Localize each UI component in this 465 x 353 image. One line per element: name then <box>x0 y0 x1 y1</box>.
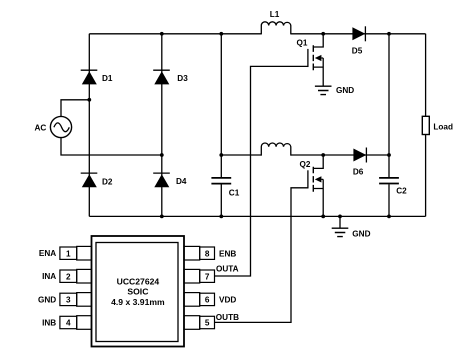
wire C1 column <box>220 34 222 217</box>
svg-text:7: 7 <box>205 272 210 281</box>
ground GND1 (Q1 source) <box>315 86 332 94</box>
svg-text:D2: D2 <box>102 177 113 186</box>
pin 6 box <box>200 293 215 305</box>
pin 5 box <box>200 316 215 328</box>
svg-text:ENB: ENB <box>219 249 236 258</box>
svg-text:VDD: VDD <box>219 296 236 305</box>
pin 2 box <box>60 270 77 282</box>
wire top bus left (bridge output to L1) <box>89 33 261 35</box>
svg-text:GND: GND <box>352 230 370 239</box>
pin 6 leg <box>184 293 200 307</box>
wire OUTB net (pin 5 to Q2 gate) <box>215 188 308 323</box>
pin 8 box <box>200 247 215 259</box>
capacitor C1 <box>211 178 231 184</box>
svg-text:1: 1 <box>66 249 71 258</box>
wire C2 column <box>388 34 390 217</box>
junction: bottom bus at C1 <box>219 215 223 219</box>
ground GND2 (bottom bus) <box>332 216 349 236</box>
pin 4 leg <box>77 316 92 330</box>
wire load right rail <box>425 34 427 217</box>
pin 1 leg <box>77 246 92 260</box>
svg-text:GND: GND <box>38 295 56 304</box>
wire bottom bus <box>89 215 425 217</box>
svg-text:4: 4 <box>66 319 71 328</box>
svg-text:D3: D3 <box>177 74 188 83</box>
op-amp U1 body (UCC27624 outer) <box>92 236 185 347</box>
junction: AC bottom tap <box>160 153 164 157</box>
wire OUTA net (pin 7 to Q1 gate) <box>215 66 308 276</box>
resistor Load <box>422 116 429 134</box>
diode D5 <box>352 26 365 41</box>
inductor L1 <box>261 22 290 35</box>
svg-text:Load: Load <box>433 123 453 132</box>
diode D3 <box>153 70 170 84</box>
svg-text:D5: D5 <box>352 47 363 56</box>
AC source <box>50 116 71 137</box>
diode D4 <box>153 173 170 187</box>
junction: top bus at D3 <box>160 32 164 36</box>
svg-text:8: 8 <box>205 249 210 258</box>
svg-text:C1: C1 <box>229 189 240 198</box>
diode D2 <box>81 173 98 187</box>
pin 2 leg <box>77 269 92 283</box>
junction: D6/C2 <box>387 153 391 157</box>
svg-text:5: 5 <box>205 319 210 328</box>
svg-text:Q2: Q2 <box>300 160 311 169</box>
svg-text:4.9 x 3.91mm: 4.9 x 3.91mm <box>111 297 165 307</box>
wire bridge right column <box>161 34 163 217</box>
svg-text:D6: D6 <box>353 168 364 177</box>
pin 5 leg <box>184 316 200 330</box>
junction: Q2 drain <box>321 153 325 157</box>
junction: top bus at D5/C2 <box>387 32 391 36</box>
svg-text:GND: GND <box>336 86 354 95</box>
svg-text:ENA: ENA <box>39 249 56 258</box>
pin 1 box <box>60 247 77 259</box>
wire stage-2 feed (C1 tap to L2 to Q2 drain to D6) <box>221 154 389 156</box>
diode D6 <box>353 148 366 163</box>
pin 4 box <box>60 316 77 328</box>
svg-text:6: 6 <box>205 296 210 305</box>
junction: AC top tap <box>87 98 91 102</box>
wire AC source bottom lead <box>61 138 162 155</box>
pin 7 leg <box>184 269 200 283</box>
junction: bottom bus at D4 <box>160 215 164 219</box>
svg-text:3: 3 <box>66 296 71 305</box>
pin 3 leg <box>77 293 92 307</box>
inductor L2 <box>261 143 290 156</box>
transistor Q2 <box>308 155 323 216</box>
U1 inner outline <box>96 243 178 342</box>
svg-text:UCC27624: UCC27624 <box>117 277 160 287</box>
junction: bottom bus at C2 <box>387 215 391 219</box>
svg-text:L1: L1 <box>270 10 280 19</box>
wire AC source top lead <box>61 100 89 117</box>
pin 3 box <box>60 293 77 305</box>
pin 8 leg <box>184 246 200 260</box>
wire top bus right (L1 through D5 to load corner) <box>291 33 426 35</box>
junction: bottom bus at GND2 <box>338 215 342 219</box>
svg-text:INA: INA <box>42 272 56 281</box>
svg-text:OUTA: OUTA <box>216 264 239 273</box>
svg-text:C2: C2 <box>396 187 407 196</box>
svg-text:D4: D4 <box>176 177 187 186</box>
junction: top bus at Q1 drain <box>321 32 325 36</box>
svg-text:INB: INB <box>42 319 56 328</box>
diode D1 <box>81 70 98 84</box>
svg-text:AC: AC <box>35 123 47 132</box>
junction: bottom bus at Q2 source <box>321 215 325 219</box>
svg-text:SOIC: SOIC <box>127 286 148 296</box>
pin 7 box <box>200 270 215 282</box>
svg-text:Q1: Q1 <box>297 39 308 48</box>
junction: C1 tap stage-2 <box>219 153 223 157</box>
wire bridge left column <box>88 34 90 217</box>
junction: top bus at C1 <box>219 32 223 36</box>
svg-text:2: 2 <box>66 272 71 281</box>
svg-text:D1: D1 <box>102 74 113 83</box>
svg-text:OUTB: OUTB <box>216 313 239 322</box>
transistor Q1 <box>308 34 323 86</box>
capacitor C2 <box>379 178 399 184</box>
